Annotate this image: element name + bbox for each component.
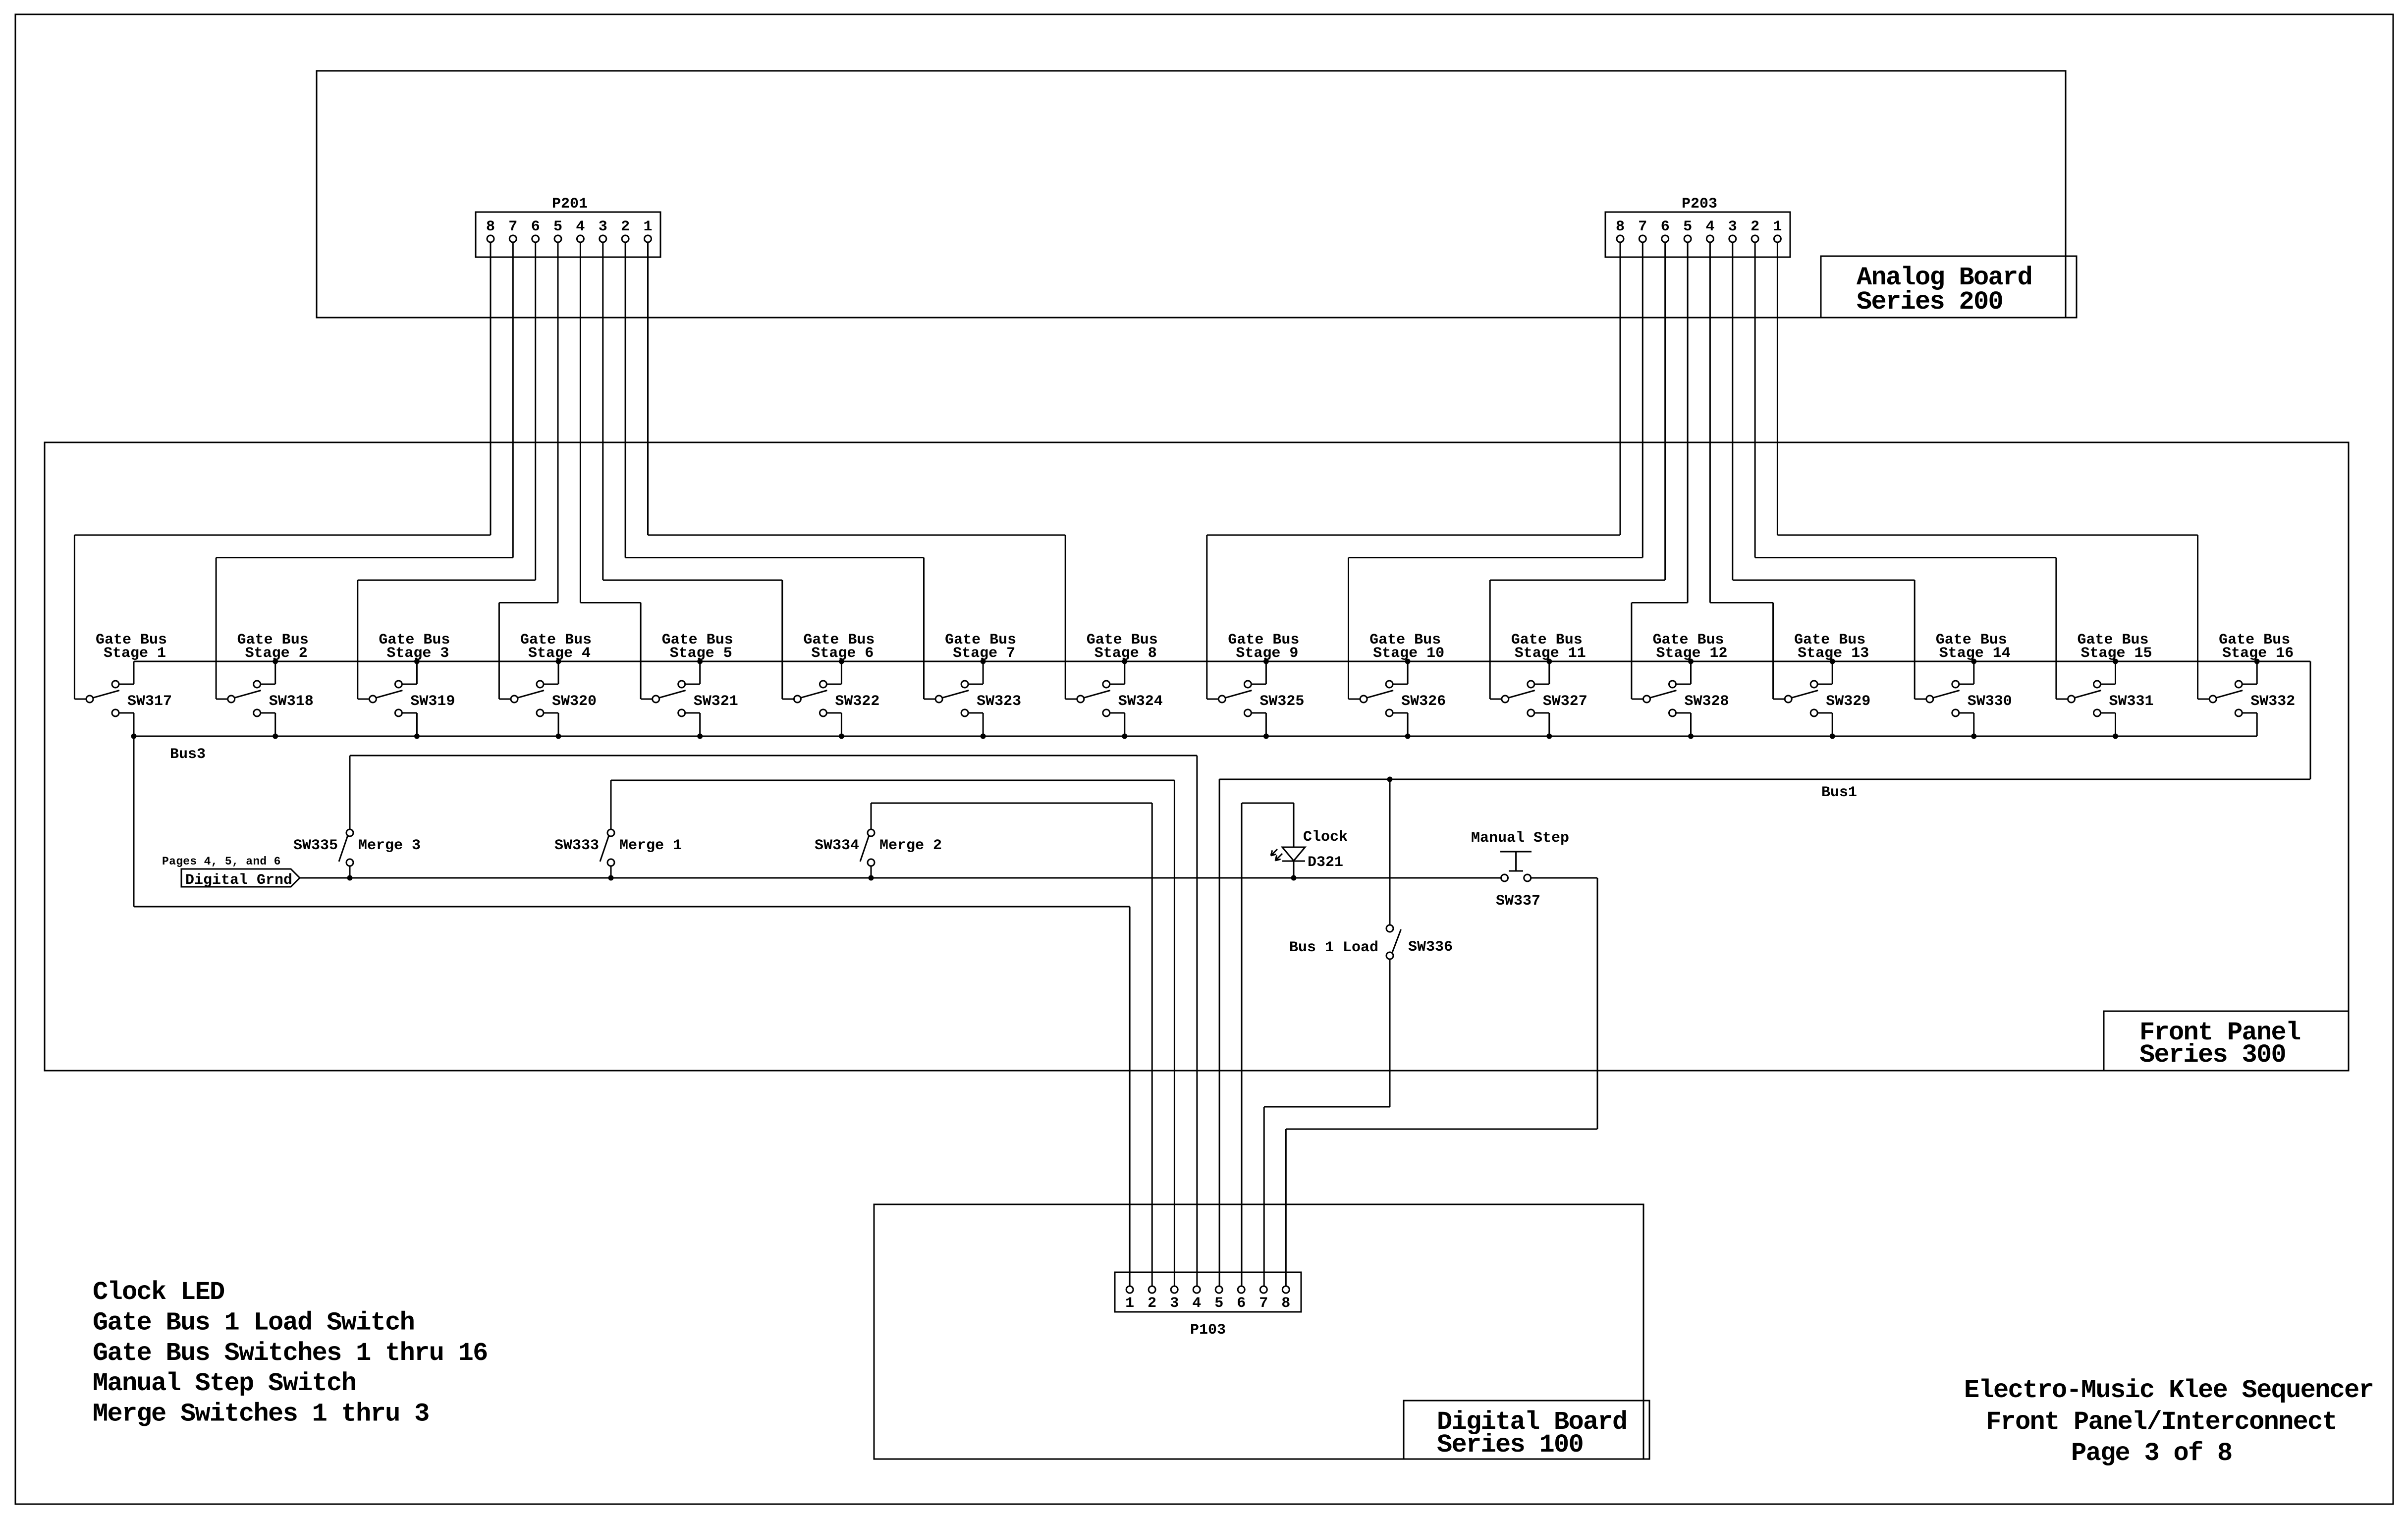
svg-text:Bus 1 Load: Bus 1 Load <box>1289 939 1378 956</box>
svg-text:Merge 3: Merge 3 <box>358 837 421 854</box>
svg-text:Bus3: Bus3 <box>170 746 206 763</box>
svg-text:Merge 2: Merge 2 <box>879 837 942 854</box>
svg-text:Stage 5: Stage 5 <box>670 645 732 662</box>
svg-text:Electro-Music Klee Sequencer: Electro-Music Klee Sequencer <box>1964 1376 2373 1405</box>
svg-text:Stage 13: Stage 13 <box>1798 645 1869 662</box>
svg-text:Clock LED: Clock LED <box>93 1278 224 1307</box>
svg-text:Stage 11: Stage 11 <box>1515 645 1586 662</box>
svg-text:SW335: SW335 <box>293 837 338 854</box>
svg-text:Manual Step: Manual Step <box>1471 830 1569 847</box>
svg-text:SW332: SW332 <box>2250 693 2295 710</box>
svg-text:Digital Grnd: Digital Grnd <box>185 872 292 889</box>
svg-text:SW327: SW327 <box>1543 693 1587 710</box>
svg-text:Merge 1: Merge 1 <box>619 837 682 854</box>
svg-text:3: 3 <box>1170 1295 1179 1312</box>
svg-text:Stage 1: Stage 1 <box>104 645 166 662</box>
svg-text:Clock: Clock <box>1303 829 1348 846</box>
svg-text:8: 8 <box>486 218 495 235</box>
svg-text:SW325: SW325 <box>1259 693 1304 710</box>
svg-text:SW321: SW321 <box>694 693 738 710</box>
svg-text:Gate Bus 1 Load Switch: Gate Bus 1 Load Switch <box>93 1308 414 1337</box>
svg-text:1: 1 <box>1125 1295 1134 1312</box>
svg-text:SW334: SW334 <box>815 837 859 854</box>
svg-text:1: 1 <box>643 218 652 235</box>
svg-text:6: 6 <box>1237 1295 1246 1312</box>
svg-text:Stage 10: Stage 10 <box>1373 645 1444 662</box>
svg-text:2: 2 <box>1751 218 1759 235</box>
svg-text:SW319: SW319 <box>410 693 455 710</box>
svg-text:2: 2 <box>1148 1295 1156 1312</box>
svg-text:SW330: SW330 <box>1968 693 2012 710</box>
svg-text:Stage 3: Stage 3 <box>386 645 449 662</box>
svg-text:5: 5 <box>553 218 562 235</box>
svg-text:6: 6 <box>1661 218 1670 235</box>
svg-text:SW328: SW328 <box>1685 693 1729 710</box>
svg-text:Series 100: Series 100 <box>1437 1430 1583 1460</box>
svg-text:Stage 16: Stage 16 <box>2222 645 2294 662</box>
svg-text:4: 4 <box>1192 1295 1201 1312</box>
svg-text:Bus1: Bus1 <box>1821 784 1857 801</box>
svg-text:SW333: SW333 <box>554 837 599 854</box>
svg-text:5: 5 <box>1214 1295 1223 1312</box>
svg-text:Manual Step Switch: Manual Step Switch <box>93 1369 356 1398</box>
svg-text:5: 5 <box>1683 218 1692 235</box>
svg-text:Series 200: Series 200 <box>1857 287 2003 317</box>
svg-text:SW326: SW326 <box>1401 693 1446 710</box>
svg-text:P103: P103 <box>1190 1322 1226 1339</box>
svg-text:Stage 15: Stage 15 <box>2080 645 2152 662</box>
svg-text:SW318: SW318 <box>269 693 314 710</box>
svg-text:8: 8 <box>1281 1295 1290 1312</box>
svg-text:Pages 4, 5, and 6: Pages 4, 5, and 6 <box>162 855 281 868</box>
svg-text:SW320: SW320 <box>552 693 597 710</box>
svg-text:Stage 14: Stage 14 <box>1939 645 2011 662</box>
svg-text:SW324: SW324 <box>1118 693 1163 710</box>
svg-text:Stage 12: Stage 12 <box>1656 645 1727 662</box>
svg-text:SW317: SW317 <box>127 693 172 710</box>
svg-text:SW323: SW323 <box>977 693 1021 710</box>
svg-text:SW329: SW329 <box>1826 693 1870 710</box>
svg-text:SW336: SW336 <box>1408 939 1453 956</box>
svg-text:P201: P201 <box>552 196 588 213</box>
svg-text:3: 3 <box>1728 218 1737 235</box>
svg-text:1: 1 <box>1773 218 1782 235</box>
svg-text:2: 2 <box>621 218 630 235</box>
svg-text:4: 4 <box>576 218 585 235</box>
svg-text:7: 7 <box>1638 218 1647 235</box>
svg-text:Series 300: Series 300 <box>2139 1040 2286 1070</box>
svg-text:SW337: SW337 <box>1496 893 1540 910</box>
svg-text:SW331: SW331 <box>2109 693 2154 710</box>
svg-text:4: 4 <box>1705 218 1714 235</box>
svg-text:7: 7 <box>1259 1295 1268 1312</box>
svg-text:6: 6 <box>531 218 540 235</box>
svg-text:D321: D321 <box>1308 854 1343 871</box>
svg-text:Stage 6: Stage 6 <box>811 645 874 662</box>
svg-text:Gate Bus Switches 1 thru 16: Gate Bus Switches 1 thru 16 <box>93 1339 488 1368</box>
svg-text:Merge Switches 1 thru 3: Merge Switches 1 thru 3 <box>93 1400 429 1429</box>
svg-text:Stage 8: Stage 8 <box>1095 645 1157 662</box>
svg-text:Stage 4: Stage 4 <box>528 645 591 662</box>
svg-text:3: 3 <box>599 218 607 235</box>
svg-text:7: 7 <box>508 218 517 235</box>
svg-text:SW322: SW322 <box>835 693 879 710</box>
svg-text:P203: P203 <box>1682 196 1717 213</box>
svg-text:8: 8 <box>1616 218 1625 235</box>
svg-text:Stage 2: Stage 2 <box>245 645 308 662</box>
svg-text:Stage 7: Stage 7 <box>953 645 1015 662</box>
svg-text:Stage 9: Stage 9 <box>1236 645 1298 662</box>
svg-text:Page 3 of 8: Page 3 of 8 <box>2071 1439 2232 1468</box>
svg-text:Front Panel/Interconnect: Front Panel/Interconnect <box>1986 1408 2337 1437</box>
